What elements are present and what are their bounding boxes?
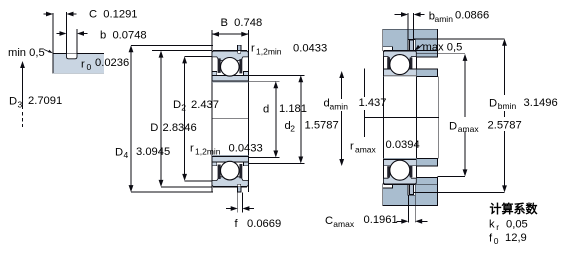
svg-text:amax: amax [355, 145, 377, 155]
svg-text:r: r [190, 143, 194, 155]
svg-text:r: r [350, 141, 354, 153]
svg-text:1.437: 1.437 [359, 97, 387, 109]
svg-text:r: r [81, 59, 85, 71]
svg-text:C: C [325, 215, 333, 227]
svg-text:4: 4 [124, 150, 129, 160]
svg-text:2.437: 2.437 [191, 99, 219, 111]
svg-text:0.0866: 0.0866 [455, 10, 489, 22]
svg-text:1.181: 1.181 [279, 103, 307, 115]
svg-text:D: D [150, 122, 158, 134]
svg-text:1.5787: 1.5787 [305, 120, 339, 132]
svg-text:d: d [263, 104, 269, 116]
svg-text:2: 2 [181, 103, 186, 113]
svg-text:计算系数: 计算系数 [490, 201, 539, 216]
svg-text:0.0669: 0.0669 [247, 218, 281, 230]
svg-text:0.1961: 0.1961 [364, 214, 398, 226]
svg-text:amin: amin [435, 14, 454, 24]
svg-text:amin: amin [330, 102, 349, 112]
svg-text:D: D [115, 147, 123, 159]
svg-text:2: 2 [290, 124, 295, 134]
svg-text:12,9: 12,9 [505, 232, 527, 244]
svg-text:0.0394: 0.0394 [386, 139, 420, 151]
svg-text:3.1496: 3.1496 [524, 97, 558, 109]
svg-text:3: 3 [18, 100, 23, 110]
svg-text:0,05: 0,05 [506, 218, 528, 230]
svg-text:min 0,5: min 0,5 [8, 47, 45, 59]
svg-text:1,2min: 1,2min [256, 47, 282, 57]
svg-text:1,2min: 1,2min [195, 147, 221, 157]
svg-text:C 0.1291: C 0.1291 [89, 9, 138, 21]
svg-text:r: r [496, 222, 499, 232]
svg-text:0.0236: 0.0236 [95, 57, 129, 69]
svg-text:amax: amax [458, 124, 480, 134]
svg-text:3.0945: 3.0945 [136, 146, 170, 158]
svg-text:0: 0 [494, 236, 499, 246]
svg-text:D: D [9, 96, 17, 108]
svg-text:0.0433: 0.0433 [229, 143, 263, 155]
svg-text:b 0.0748: b 0.0748 [100, 30, 147, 42]
svg-text:D: D [449, 121, 457, 133]
svg-text:amax: amax [333, 219, 355, 229]
svg-text:r: r [251, 43, 255, 55]
svg-text:D: D [173, 99, 181, 111]
svg-text:2.5787: 2.5787 [488, 120, 522, 132]
svg-text:2.8346: 2.8346 [163, 122, 197, 134]
svg-text:0.0433: 0.0433 [293, 43, 327, 55]
svg-text:bmin: bmin [498, 101, 517, 111]
svg-text:max 0,5: max 0,5 [423, 42, 463, 54]
svg-text:0: 0 [87, 62, 92, 72]
svg-text:2.7091: 2.7091 [28, 95, 62, 107]
svg-text:D: D [489, 98, 497, 110]
svg-text:k: k [489, 219, 495, 231]
svg-text:B 0.748: B 0.748 [221, 17, 263, 29]
